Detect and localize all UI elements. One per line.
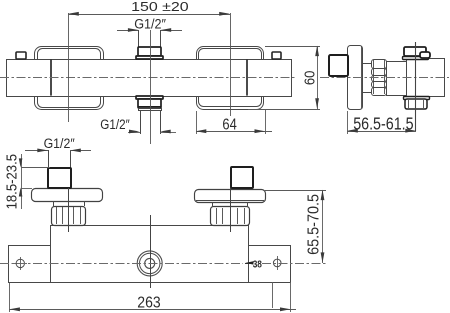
svg-text:G1/2″: G1/2″ xyxy=(44,136,75,151)
svg-text:G1/2″: G1/2″ xyxy=(100,117,129,133)
svg-text:38: 38 xyxy=(253,259,263,270)
svg-text:60: 60 xyxy=(302,71,319,86)
svg-text:65.5-70.5: 65.5-70.5 xyxy=(305,194,322,255)
svg-text:64: 64 xyxy=(222,117,236,134)
svg-text:G1/2″: G1/2″ xyxy=(134,17,166,33)
svg-text:18.5-23.5: 18.5-23.5 xyxy=(4,154,20,209)
svg-text:150 ±20: 150 ±20 xyxy=(131,0,189,14)
svg-text:56.5-61.5: 56.5-61.5 xyxy=(353,114,413,134)
svg-text:263: 263 xyxy=(137,293,160,311)
